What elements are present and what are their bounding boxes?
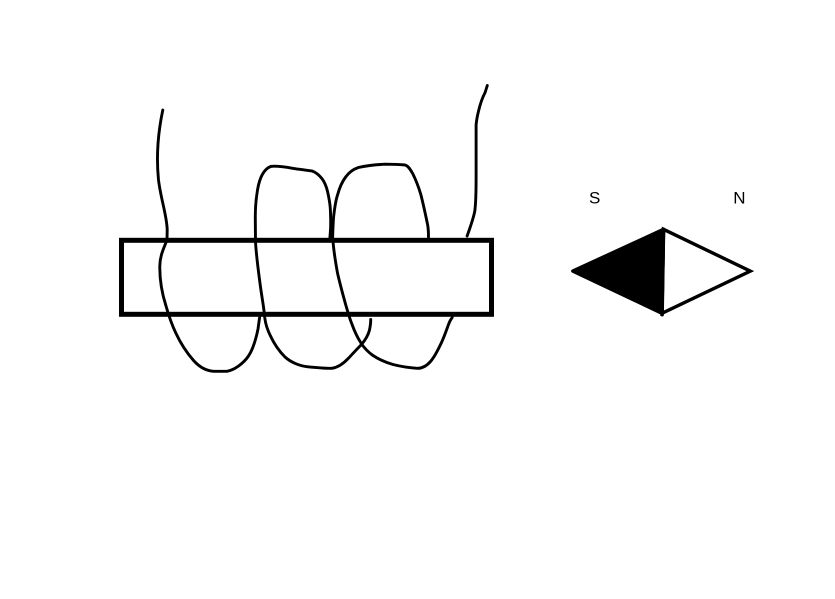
wire: diagonal through-bar pass + bottom arc 3 [333, 239, 452, 369]
wire: left lead + first loop front pass + bottom arc 1 [158, 110, 260, 371]
svg-text:S: S [589, 189, 600, 208]
iron bar core [122, 240, 492, 314]
compass needle: small nub below bottom vertex [661, 313, 664, 316]
wire: loop2 top (left side + top + right side) [333, 164, 429, 238]
svg-text:N: N [733, 189, 745, 208]
compass needle: thick vertical divider at centre [662, 229, 663, 313]
compass needle: right (N) half, outline only [662, 229, 750, 313]
compass needle: left (S) half, filled black [573, 229, 664, 313]
wire: right lead [467, 86, 487, 237]
wire: loop1 top (top edge + right side) [271, 166, 331, 239]
wire: loop1 top left side + through-bar pass + bottom arc 2 [255, 166, 370, 368]
